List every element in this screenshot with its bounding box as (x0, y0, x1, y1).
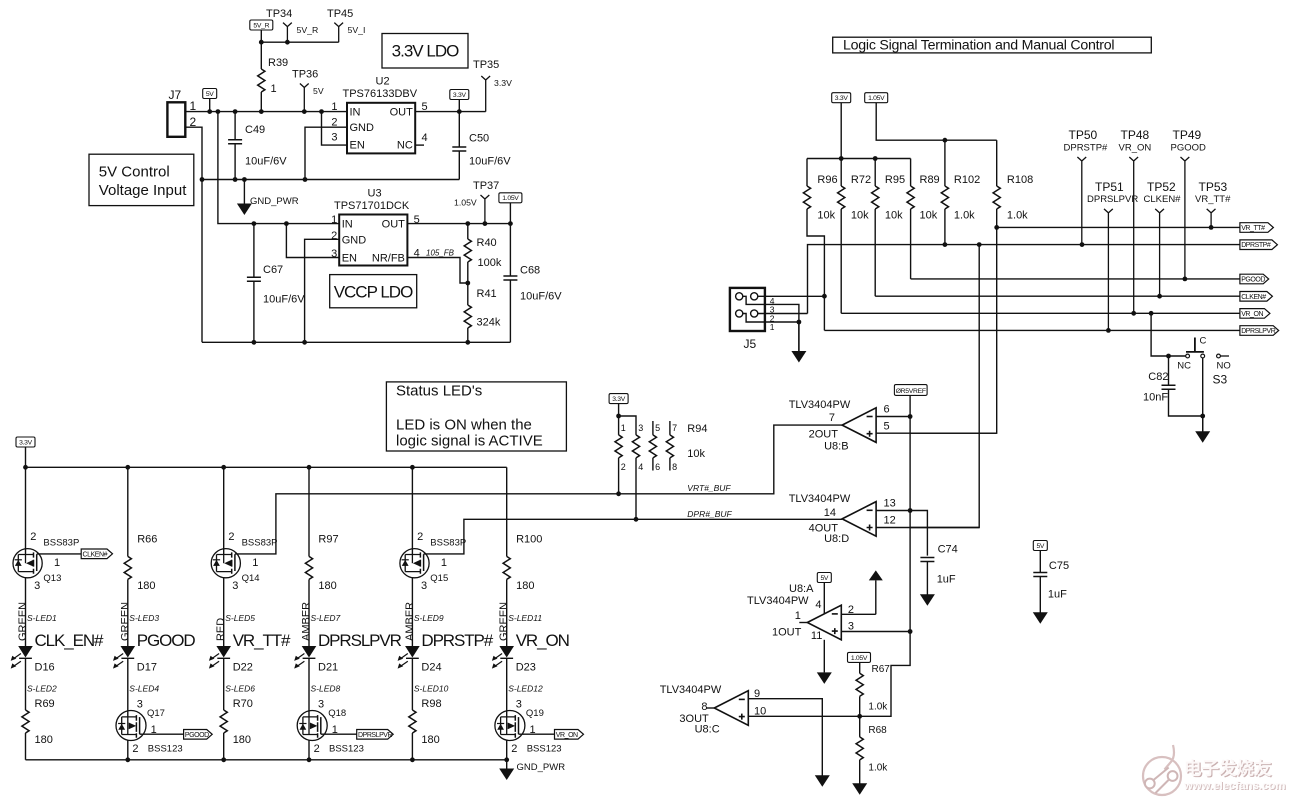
test point TP49 (1171, 128, 1207, 279)
wire (748, 715, 859, 717)
wire (618, 416, 620, 435)
power arrow up (869, 570, 883, 614)
watermark logo elecfans (1143, 745, 1181, 795)
svg-text:logic signal is ACTIVE: logic signal is ACTIVE (396, 433, 543, 450)
svg-text:105_FB: 105_FB (426, 249, 455, 258)
svg-text:TLV3404PW: TLV3404PW (789, 493, 851, 505)
node junction (410, 757, 415, 762)
wire (519, 733, 555, 735)
wire (223, 467, 225, 554)
svg-text:VR_ON: VR_ON (516, 631, 569, 650)
power label 3.3V LED bus (16, 437, 35, 467)
svg-text:TP50: TP50 (1069, 128, 1098, 142)
wire (765, 313, 808, 315)
node junction (483, 221, 488, 226)
transistor Q14 BSS83P (211, 531, 277, 592)
svg-text:Q14: Q14 (242, 573, 260, 584)
power label 5V U8A (817, 573, 831, 615)
resistor R69 180 (22, 659, 55, 760)
wire (407, 258, 467, 284)
title box Status LEDs (386, 382, 566, 451)
svg-text:TPS76133DBV: TPS76133DBV (343, 88, 418, 100)
resistor R108 1.0k (993, 140, 1033, 227)
svg-text:180: 180 (516, 580, 534, 592)
node junction (908, 414, 913, 419)
node junction (616, 491, 621, 496)
svg-text:TPS71701DCK: TPS71701DCK (334, 200, 410, 212)
LED D23 (492, 646, 536, 674)
svg-text:1: 1 (252, 557, 258, 569)
svg-text:180: 180 (233, 734, 251, 746)
wire (1168, 356, 1170, 385)
svg-text:R39: R39 (268, 57, 288, 69)
capacitor C68 (503, 224, 562, 343)
resistor R96 10k (803, 159, 837, 331)
wire (218, 112, 339, 224)
wire (669, 421, 671, 435)
wire (411, 578, 413, 646)
wire gnd bus 2 (202, 341, 510, 343)
wire (996, 140, 998, 186)
wire (910, 159, 912, 187)
capacitor C82 (1143, 356, 1203, 416)
svg-text:180: 180 (421, 734, 439, 746)
wire (823, 583, 825, 615)
resistor R39 (258, 42, 288, 111)
svg-text:VRT#_BUF: VRT#_BUF (687, 483, 731, 493)
wire (618, 458, 620, 494)
svg-text:TP51: TP51 (1095, 180, 1124, 194)
wire (765, 304, 799, 351)
title box Logic Signal Termination (833, 37, 1152, 53)
op-amp U8:B TLV3404PW (789, 399, 890, 453)
svg-text:2: 2 (30, 531, 36, 543)
svg-text:7: 7 (829, 412, 835, 424)
svg-text:5V_I: 5V_I (348, 25, 366, 35)
wire (1151, 313, 1186, 356)
svg-text:1: 1 (331, 214, 337, 226)
svg-text:5: 5 (884, 421, 890, 433)
op-amp U8:C TLV3404PW (660, 684, 767, 736)
svg-text:TLV3404PW: TLV3404PW (660, 684, 722, 696)
node junction (259, 40, 264, 45)
wire (807, 209, 824, 330)
power label 3.3V at U2 (450, 90, 469, 112)
resistor R94 D (666, 421, 677, 472)
ground R68 (852, 783, 867, 795)
svg-text:TP53: TP53 (1199, 180, 1228, 194)
wire (308, 659, 310, 717)
node junction (634, 517, 639, 522)
node junction (943, 242, 948, 247)
svg-text:1uF: 1uF (1048, 589, 1067, 601)
node junction (200, 177, 205, 182)
svg-text:Q19: Q19 (526, 708, 544, 719)
wire VR_ON (841, 312, 1240, 314)
transistor Q18 BSS123 (297, 699, 364, 756)
svg-text:BSS83P: BSS83P (430, 538, 466, 549)
svg-text:S-LED9: S-LED9 (414, 613, 444, 623)
resistor R94 A (615, 416, 626, 494)
svg-text:TP37: TP37 (473, 180, 499, 192)
node junction (1080, 242, 1085, 247)
wire (209, 99, 211, 112)
svg-text:TP52: TP52 (1147, 180, 1176, 194)
svg-text:4: 4 (638, 462, 643, 472)
svg-text:1.0k: 1.0k (868, 702, 888, 713)
svg-text:TP34: TP34 (266, 8, 292, 20)
svg-text:DPRSLPVR: DPRSLPVR (318, 631, 402, 650)
wire (859, 696, 861, 716)
resistor R72 10k (838, 159, 871, 314)
capacitor C67 (247, 224, 305, 343)
wire (1202, 358, 1204, 432)
node junction (259, 109, 264, 114)
svg-text:6: 6 (655, 462, 660, 472)
svg-text:EN: EN (350, 140, 365, 152)
wire (127, 741, 129, 760)
svg-text:10k: 10k (817, 210, 835, 222)
wire VRT#_BUF (235, 425, 842, 554)
svg-text:D21: D21 (318, 662, 338, 674)
LED D21 (294, 646, 338, 674)
op-amp U8:A TLV3404PW (747, 583, 854, 642)
svg-text:D16: D16 (35, 662, 55, 674)
wire (25, 467, 27, 554)
svg-text:100k: 100k (478, 257, 502, 269)
wire (859, 760, 861, 784)
svg-text:S-LED8: S-LED8 (311, 684, 341, 694)
svg-text:Q17: Q17 (147, 708, 165, 719)
node junction (125, 465, 130, 470)
wire (223, 659, 225, 710)
svg-text:C74: C74 (938, 544, 958, 556)
node junction (252, 340, 257, 345)
svg-text:PGOOD: PGOOD (137, 631, 196, 650)
svg-text:10k: 10k (687, 448, 705, 460)
svg-text:3: 3 (34, 580, 40, 592)
transistor Q13 BSS83P (13, 531, 79, 592)
wire 5V_R net (261, 41, 338, 43)
node junction (307, 757, 312, 762)
LED D17 (113, 646, 157, 674)
svg-text:8: 8 (701, 701, 707, 713)
svg-text:3: 3 (137, 699, 143, 711)
svg-text:VR_TT#: VR_TT# (1241, 225, 1265, 232)
LED D22 (209, 646, 253, 674)
node junction (839, 156, 844, 161)
wire (407, 223, 510, 225)
svg-text:1: 1 (441, 557, 447, 569)
power label 5V_R (250, 20, 273, 30)
watermark text elecfans (1183, 759, 1287, 794)
svg-text:5V_R: 5V_R (253, 22, 269, 29)
svg-text:10uF/6V: 10uF/6V (263, 294, 305, 306)
node junction (977, 242, 982, 247)
wire (140, 733, 184, 735)
svg-text:GND_PWR: GND_PWR (250, 196, 299, 207)
wire (876, 432, 997, 434)
svg-text:2: 2 (621, 462, 626, 472)
svg-text:NC: NC (397, 140, 413, 152)
svg-text:S3: S3 (1213, 373, 1228, 387)
wire (876, 527, 979, 529)
svg-text:5V: 5V (313, 86, 324, 96)
svg-text:3: 3 (638, 423, 643, 433)
svg-text:R95: R95 (885, 174, 905, 186)
svg-text:C49: C49 (245, 124, 265, 136)
svg-text:S-LED4: S-LED4 (129, 684, 159, 694)
svg-text:1: 1 (770, 322, 775, 332)
power label 5V C75 (1033, 541, 1047, 573)
node junction (504, 757, 509, 762)
svg-text:DPRSTP#: DPRSTP# (1241, 242, 1271, 249)
wire (234, 144, 236, 180)
svg-text:14: 14 (824, 507, 836, 519)
svg-text:IN: IN (350, 107, 361, 119)
node junction (1209, 225, 1214, 230)
wire (669, 458, 671, 471)
wire U3 NR/FB 105_FB (407, 249, 467, 284)
capacitor C74 (920, 544, 957, 595)
wire (910, 227, 997, 433)
node junction (207, 109, 212, 114)
svg-text:1.05V: 1.05V (851, 655, 868, 662)
svg-text:C50: C50 (469, 133, 489, 145)
svg-text:1: 1 (621, 423, 626, 433)
svg-text:U8:B: U8:B (824, 441, 848, 453)
svg-text:2: 2 (511, 743, 517, 755)
capacitor C50 (452, 112, 511, 180)
svg-text:4: 4 (422, 132, 428, 144)
svg-text:U8:A: U8:A (789, 583, 814, 595)
transistor Q15 BSS83P (400, 531, 466, 592)
svg-text:R66: R66 (137, 534, 157, 546)
svg-text:1: 1 (795, 610, 801, 622)
test point TP50 (1064, 128, 1109, 245)
svg-text:C67: C67 (263, 264, 283, 276)
svg-text:U8:C: U8:C (695, 724, 720, 736)
net flag PGOOD line (1240, 274, 1269, 284)
svg-text:S-LED11: S-LED11 (508, 613, 542, 623)
wire (876, 511, 927, 556)
wire (748, 699, 822, 776)
resistor R102 1.0k (941, 140, 980, 244)
net flag VR_TT# line (1240, 223, 1274, 233)
svg-text:U8:D: U8:D (824, 533, 849, 545)
svg-text:VR_TT#: VR_TT# (233, 631, 291, 650)
node junction (1200, 414, 1205, 419)
node junction (252, 221, 257, 226)
wire (840, 159, 842, 187)
svg-text:R72: R72 (851, 174, 871, 186)
wire (874, 209, 876, 296)
wire (859, 662, 861, 673)
node junction (994, 225, 999, 230)
resistor R100 180 (503, 467, 542, 646)
svg-text:TP45: TP45 (327, 8, 353, 20)
wire (944, 140, 946, 186)
wire (467, 262, 469, 283)
svg-text:PGOOD: PGOOD (1241, 277, 1265, 284)
wire 5V main (185, 111, 347, 113)
svg-text:EN: EN (342, 253, 357, 265)
svg-text:VCCP LDO: VCCP LDO (334, 283, 413, 302)
node junction (242, 177, 247, 182)
wire (840, 103, 842, 159)
svg-text:10uF/6V: 10uF/6V (245, 156, 287, 168)
resistor R98 180 (409, 659, 442, 760)
wire (1039, 551, 1041, 573)
svg-text:5V: 5V (820, 575, 828, 582)
wire 0R5VREF (909, 395, 911, 631)
svg-text:180: 180 (318, 580, 336, 592)
wire J7 pin2 gnd (185, 127, 202, 342)
svg-text:1: 1 (54, 557, 60, 569)
svg-text:1: 1 (271, 83, 277, 95)
svg-text:BSS123: BSS123 (148, 744, 183, 755)
resistor R97 180 (305, 467, 338, 646)
svg-text:R89: R89 (920, 174, 940, 186)
svg-text:NC: NC (1177, 361, 1191, 372)
net flag DPRSTP# line (1240, 240, 1278, 250)
node junction (233, 109, 238, 114)
svg-text:BSS83P: BSS83P (43, 538, 79, 549)
power label 1.05V R67 (848, 652, 871, 673)
test point TP51 (1087, 180, 1138, 330)
wire (127, 467, 129, 556)
node junction (1106, 328, 1111, 333)
wire led gnd bus (26, 759, 507, 761)
wire (1039, 577, 1041, 613)
node junction (284, 221, 289, 226)
wire (635, 421, 637, 435)
svg-text:J7: J7 (169, 88, 182, 102)
svg-text:C82: C82 (1148, 371, 1168, 383)
node junction (125, 757, 130, 762)
node junction (797, 320, 802, 325)
transistor Q17 BSS123 (116, 699, 183, 756)
svg-text:1.0k: 1.0k (1007, 210, 1028, 222)
svg-text:1OUT: 1OUT (772, 627, 802, 639)
node junction (216, 109, 221, 114)
wire (411, 733, 413, 760)
node junction (302, 109, 307, 114)
wire (806, 159, 808, 187)
wire (25, 447, 27, 467)
ground S3 (1195, 416, 1210, 443)
node junction (908, 629, 913, 634)
net flag DPRSLPVR (357, 730, 394, 740)
wire VR_TT# (997, 226, 1240, 228)
svg-text:J5: J5 (744, 337, 757, 351)
svg-text:11: 11 (811, 630, 822, 642)
node junction (410, 465, 415, 470)
svg-text:C: C (1200, 336, 1207, 347)
wire CLKEN# (875, 295, 1240, 297)
svg-text:VR_TT#: VR_TT# (1195, 194, 1231, 205)
svg-text:5V Control: 5V Control (99, 163, 170, 180)
svg-text:2: 2 (228, 531, 234, 543)
net flag VR_ON (555, 730, 584, 740)
svg-text:Voltage Input: Voltage Input (99, 182, 187, 199)
svg-text:324k: 324k (477, 317, 501, 329)
svg-text:C75: C75 (1049, 560, 1069, 572)
svg-text:VR_ON: VR_ON (556, 732, 578, 739)
wire (25, 659, 27, 710)
LED D24 (398, 646, 442, 674)
svg-text:R96: R96 (817, 174, 837, 186)
wire (910, 209, 912, 279)
svg-text:IN: IN (342, 219, 353, 231)
title box 3.3V LDO (382, 34, 468, 69)
resistor R95 10k (872, 159, 905, 297)
power label 1.05V at U3 (499, 193, 522, 224)
power label 0R5VREF (894, 385, 927, 396)
svg-text:1.0k: 1.0k (868, 763, 888, 774)
ground C74 (920, 594, 935, 606)
resistor R70 180 (220, 659, 253, 760)
svg-text:S-LED7: S-LED7 (311, 613, 341, 623)
node junction (319, 109, 324, 114)
svg-text:2OUT: 2OUT (809, 429, 839, 441)
wire (926, 562, 928, 595)
node junction (943, 138, 948, 143)
wire (415, 144, 424, 146)
title box 5V Control Voltage Input (89, 154, 194, 205)
node junction (1166, 354, 1171, 359)
svg-text:NR/FB: NR/FB (372, 253, 405, 265)
wire DPR#_BUF (424, 519, 842, 554)
wire (223, 578, 225, 646)
wire (860, 632, 910, 717)
power label 1.05V pullups (865, 93, 997, 141)
power label 3.3V pullups (832, 93, 851, 159)
node junction (221, 757, 226, 762)
svg-text:10k: 10k (920, 210, 938, 222)
wire (874, 159, 876, 187)
wire (841, 613, 875, 615)
svg-text:3: 3 (232, 580, 238, 592)
wire (223, 733, 225, 760)
svg-text:D24: D24 (421, 662, 441, 674)
node junction (1157, 294, 1162, 299)
resistor R41 (464, 283, 501, 342)
svg-text:R67: R67 (872, 664, 891, 675)
wire (322, 112, 348, 146)
svg-text:电子发烧友: 电子发烧友 (1184, 759, 1272, 779)
LED D16 (11, 646, 55, 674)
wire PGOOD (911, 278, 1240, 280)
wire (467, 283, 469, 305)
svg-text:10nF: 10nF (1143, 392, 1168, 404)
node junction (457, 109, 462, 114)
wire (635, 458, 637, 519)
wire (765, 295, 825, 297)
resistor R68 1.0k (856, 716, 888, 783)
wire (286, 224, 339, 258)
wire (260, 42, 262, 69)
wire (37, 553, 81, 555)
svg-text:BSS83P: BSS83P (242, 538, 278, 549)
IC U3 TPS71701DCK (331, 188, 420, 266)
ground GND_PWR LED (499, 760, 565, 780)
svg-text:3.3V: 3.3V (19, 439, 33, 446)
node junction (908, 508, 913, 513)
test point TP52 (1144, 180, 1182, 296)
wire (944, 209, 946, 245)
wire (467, 328, 469, 342)
